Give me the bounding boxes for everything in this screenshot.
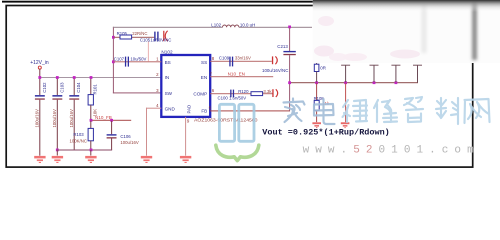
char jia [284, 99, 305, 123]
svg-text:R103: R103 [73, 132, 84, 137]
svg-text:100u/16V: 100u/16V [52, 109, 57, 128]
svg-text:22R/NC: 22R/NC [132, 31, 147, 36]
svg-text:L102: L102 [211, 22, 221, 27]
junction dot C103 bottom [56, 149, 59, 152]
wire stub top ticks [341, 65, 422, 66]
svg-text:1u/50V/NC: 1u/50V/NC [150, 38, 171, 43]
junction dot bus/stub1 [344, 81, 347, 84]
ground under stub1 [341, 122, 350, 128]
capacitor C105 [140, 31, 172, 43]
ground under C102 [34, 156, 45, 163]
junction dot bus/stub3 [395, 81, 398, 84]
svg-text:SS: SS [201, 60, 207, 65]
op-amp N102 (buck regulator IC) [161, 50, 210, 117]
svg-text:100u/16V: 100u/16V [69, 109, 74, 128]
inductor L102 [211, 22, 255, 27]
junction dot riser/R105 [112, 36, 115, 39]
svg-text:EN: EN [201, 75, 207, 80]
svg-text:C106: C106 [120, 134, 131, 139]
capacitor C109 [219, 56, 251, 67]
capacitor C104 [69, 79, 81, 150]
wire stub riser 4 [417, 65, 418, 83]
wire pin4 GND [146, 108, 161, 156]
wire right bus [289, 82, 418, 83]
junction dot bus/R108 [315, 81, 318, 84]
junction dots on +12V bus [38, 76, 92, 79]
junction dot bus/stub2 [373, 81, 376, 84]
svg-text:0R: 0R [320, 66, 326, 71]
ground pin4 [141, 156, 152, 163]
char xiu [374, 100, 397, 122]
svg-text:100K/NC: 100K/NC [70, 138, 87, 143]
svg-text:AOZ1063-50RSTB/1124560: AOZ1063-50RSTB/1124560 [194, 117, 258, 122]
wire SW riser [113, 27, 161, 94]
wire pin9 PAD [185, 117, 186, 156]
wire C103 ground drop [57, 150, 58, 155]
wire pin6 COMP [210, 93, 272, 94]
svg-text:COMP: COMP [193, 92, 207, 97]
resistor R120 [238, 89, 272, 96]
net N10_FB wire [90, 120, 131, 121]
svg-text:33n/16V: 33n/16V [235, 56, 251, 61]
outer page top line [2, 1, 313, 3]
resistor R105 [113, 31, 154, 39]
svg-text:C104: C104 [76, 82, 81, 93]
svg-text:R120: R120 [238, 89, 249, 94]
capacitor C102 [35, 79, 47, 156]
watermark overlay block top-right [313, 0, 500, 63]
junction dot riser/BS [112, 60, 115, 63]
wire +12V bus [39, 77, 162, 78]
junction dot R101/FB [90, 119, 93, 122]
wire bottom common [57, 150, 112, 151]
wire C105 to pin1 [147, 42, 150, 62]
wire stub riser 2 [374, 65, 375, 82]
wire pin8 SS [210, 61, 272, 62]
char wei [343, 100, 368, 122]
junction dot bus/C213 [288, 81, 291, 84]
terminal +12V_in [38, 66, 41, 69]
svg-text:C103: C103 [59, 82, 64, 93]
resistor R103 [70, 121, 94, 150]
ground under R108 [312, 122, 321, 128]
ground pin9 [180, 156, 191, 163]
char wang [465, 99, 490, 123]
junction dot C106/FB [110, 119, 113, 122]
wire ground drop under R103 [90, 150, 91, 155]
junction dot Vout/C213 [288, 26, 291, 29]
wire stub riser 3 [395, 65, 396, 82]
resistor R107 0R [314, 62, 326, 82]
svg-text:+12V_in: +12V_in [30, 60, 49, 66]
svg-text:IN: IN [165, 75, 170, 80]
wire pin1 BS [113, 61, 161, 62]
svg-text:Vout =0.925*(1+Rup/Rdown): Vout =0.925*(1+Rup/Rdown) [262, 128, 390, 138]
svg-text:3.3k: 3.3k [263, 89, 272, 94]
capacitor C213 [277, 28, 296, 111]
svg-text:100u/16V: 100u/16V [120, 140, 139, 145]
wire ground drop stub1 [345, 83, 346, 122]
svg-text:C100 1.6n/50V: C100 1.6n/50V [218, 96, 247, 101]
capacitor C106 [107, 121, 139, 150]
svg-text:10.0 uH: 10.0 uH [240, 22, 255, 27]
svg-text:GND: GND [165, 106, 176, 111]
wire pin5 FB [210, 110, 290, 111]
svg-text:C105: C105 [140, 38, 151, 43]
capacitor C111 (comp end) [272, 89, 277, 97]
svg-text:FB: FB [201, 108, 207, 113]
svg-text:100u/16V/NC: 100u/16V/NC [262, 68, 288, 73]
svg-text:N10_FB: N10_FB [95, 115, 112, 120]
wire input drop [39, 69, 40, 77]
wire Vout top [113, 27, 312, 28]
svg-text:100u/16V: 100u/16V [35, 109, 40, 128]
svg-text:www.520101.com: www.520101.com [303, 144, 480, 156]
resistor R108 [314, 83, 330, 122]
svg-text:C213: C213 [277, 44, 288, 49]
svg-text:R101: R101 [93, 84, 98, 95]
svg-text:N102: N102 [161, 50, 173, 55]
capacitor C103 [52, 79, 64, 150]
svg-text:SW: SW [165, 91, 173, 96]
ground under C103 [52, 156, 63, 163]
svg-text:BS: BS [165, 60, 171, 65]
wire pin7 EN [210, 76, 273, 77]
svg-text:C102: C102 [42, 82, 47, 93]
resistor R101 [88, 79, 98, 121]
watermark logo and text [216, 104, 259, 160]
svg-text:C109: C109 [219, 56, 230, 61]
capacitor C101 [218, 90, 247, 101]
capacitor C107 [114, 57, 147, 67]
capacitor C110 (NC) [262, 56, 288, 73]
char liao [436, 98, 458, 124]
ground under R103 [85, 156, 96, 163]
wire stub riser 1 [345, 65, 346, 82]
svg-text:N10_EN: N10_EN [228, 72, 245, 77]
junction dot R103 bottom [90, 149, 93, 152]
svg-text:C107: C107 [114, 57, 125, 62]
char dian [314, 99, 335, 124]
char zi [404, 97, 423, 122]
svg-text:PAD: PAD [187, 105, 192, 114]
svg-text:10u/50V: 10u/50V [130, 57, 146, 62]
